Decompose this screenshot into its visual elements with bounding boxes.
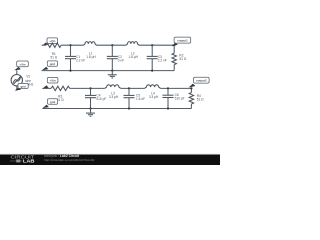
svg-text:2.2 nF: 2.2 nF: [158, 59, 167, 63]
svg-text:1.6 nF: 1.6 nF: [136, 97, 145, 101]
svg-text:2.2 nF: 2.2 nF: [76, 59, 85, 63]
inductor L3: [105, 85, 121, 99]
node rail1 C2/gnd: [111, 70, 113, 72]
node rail2 C6: [167, 107, 169, 109]
wire L1 to node2: [97, 44, 127, 46]
svg-text:3.3 µH: 3.3 µH: [109, 95, 119, 99]
node row2-A: [89, 87, 91, 89]
flag +Vin (source top): [14, 61, 28, 70]
svg-text:51 Ω: 51 Ω: [50, 56, 57, 60]
flag +Vin (row2 input): [42, 77, 58, 88]
svg-text:1.8 µH: 1.8 µH: [128, 55, 138, 59]
node row1-A: [69, 44, 71, 46]
svg-text:gnd: gnd: [20, 84, 26, 88]
flag gnd (source bottom): [15, 83, 29, 90]
svg-text:3.3 µH: 3.3 µH: [149, 95, 159, 99]
resistor R2: [172, 45, 187, 70]
inductor L2: [126, 42, 139, 59]
flag gnd (rail2 left): [43, 99, 58, 108]
node row1-B: [111, 44, 113, 46]
rail row1: [42, 70, 175, 72]
svg-text:http://circuitlab.com/c2db2nb7: http://circuitlab.com/c2db2nb76cmt6/: [44, 158, 95, 162]
svg-text:51 Ω: 51 Ω: [197, 98, 204, 102]
node row1-C: [151, 44, 153, 46]
capacitor C4: [85, 88, 106, 108]
resistor R1: [46, 43, 61, 47]
flag output1: [171, 37, 190, 46]
wire input to R1: [42, 44, 46, 46]
svg-text:output2: output2: [196, 79, 207, 83]
wire L4 to node6: [161, 87, 192, 89]
ground row2: [86, 109, 95, 117]
svg-text:3 nF: 3 nF: [118, 59, 124, 63]
svg-text:+Vin: +Vin: [50, 79, 56, 83]
capacitor C3: [147, 45, 167, 70]
flag gnd (rail1 left): [42, 61, 58, 70]
svg-text:51 Ω: 51 Ω: [179, 57, 186, 61]
svg-text:gnd: gnd: [50, 62, 56, 66]
node row2-B: [128, 87, 130, 89]
inductor L1: [84, 42, 97, 59]
rail row2: [42, 108, 191, 110]
node row1 output: [173, 44, 175, 46]
resistor R3: [51, 86, 70, 90]
wire L3 to node5: [121, 87, 144, 89]
svg-text:510 pF: 510 pF: [96, 97, 106, 101]
node row2 output: [190, 87, 192, 89]
wire R3 to node4: [70, 87, 105, 89]
svg-text:510 pF: 510 pF: [175, 97, 185, 101]
voltage source V2: [11, 75, 22, 86]
wire source bottom stub: [16, 86, 18, 91]
svg-text:LAB: LAB: [23, 159, 35, 164]
wire input to R3: [42, 87, 51, 89]
capacitor C5: [124, 88, 146, 108]
wire L2 to node3: [139, 44, 174, 46]
flag +Vin (row1 input): [42, 38, 58, 46]
svg-text:+Vin: +Vin: [19, 62, 25, 66]
node rail1 C3: [151, 70, 153, 72]
flag output2: [189, 77, 210, 87]
inductor L4: [144, 85, 160, 99]
node rail2 C4/gnd: [89, 107, 91, 109]
node row2-C: [167, 87, 169, 89]
ground row1: [108, 71, 117, 78]
wire source top stub: [16, 70, 18, 74]
node rail1 C1: [69, 70, 71, 72]
svg-text:1.8 µH: 1.8 µH: [86, 55, 96, 59]
capacitor C6: [163, 88, 185, 108]
source labels V2 / sine / 1 kHz: [25, 75, 34, 87]
wire R1 to node1: [61, 44, 83, 46]
svg-text:output1: output1: [177, 39, 188, 43]
capacitor C1: [65, 45, 85, 70]
resistor R4: [189, 88, 204, 108]
svg-text:gnd: gnd: [50, 100, 56, 104]
node rail2 C5: [128, 107, 130, 109]
capacitor C2: [107, 45, 124, 70]
